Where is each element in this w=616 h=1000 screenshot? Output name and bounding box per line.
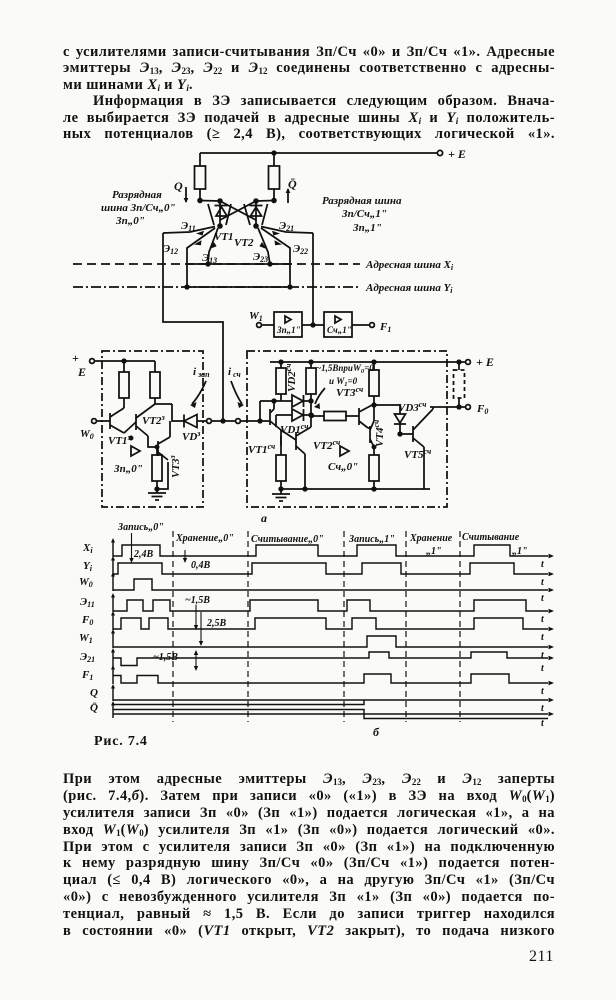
svg-text:Разрядная шина: Разрядная шина — [322, 195, 402, 207]
svg-text:Считывание: Считывание — [462, 532, 520, 543]
svg-text:Э21: Э21 — [279, 220, 294, 233]
phase separator line 2 — [247, 531, 249, 722]
ground symbol (read amp) — [272, 489, 290, 501]
resistor R2s — [306, 362, 316, 417]
svg-text:t: t — [541, 718, 545, 729]
svg-text:Зп„1": Зп„1" — [276, 325, 301, 335]
svg-text:Q: Q — [90, 687, 98, 699]
svg-text:~1,5ВприW0=0: ~1,5ВприW0=0 — [316, 363, 374, 375]
svg-text:t: t — [541, 650, 545, 661]
waveform row Xi — [82, 538, 554, 570]
wire VT1s emitter junction to resistor — [280, 436, 282, 445]
svg-text:Хранение: Хранение — [409, 533, 453, 544]
svg-text:VT3з: VT3з — [168, 455, 182, 478]
node W1 input — [249, 310, 274, 327]
resistor R-right (collector load of VT2) — [269, 153, 280, 202]
emitter E22 wire — [261, 228, 308, 287]
waveform row Qbar — [90, 701, 554, 729]
bottom paragraph — [63, 771, 555, 940]
wire collector VT2 — [256, 200, 274, 203]
svg-text:Э12: Э12 — [163, 243, 178, 256]
svg-text:~1,5В: ~1,5В — [185, 595, 210, 606]
svg-text:t: t — [541, 632, 545, 643]
svg-text:t: t — [541, 614, 545, 625]
svg-text:+: + — [72, 351, 79, 365]
svg-text:Запись„0": Запись„0" — [117, 522, 164, 533]
svg-text:VD2сч: VD2сч — [284, 364, 298, 392]
svg-text:VT5сч: VT5сч — [404, 447, 431, 461]
address line Xi (dashed) — [73, 259, 454, 272]
svg-text:W1: W1 — [249, 310, 263, 323]
svg-text:t: t — [541, 593, 545, 604]
current label i_sch with arrow — [228, 366, 244, 408]
transistor VT1s — [248, 401, 281, 456]
caption — [94, 734, 148, 750]
transistor VT3s — [359, 404, 374, 428]
ground symbol (write amp) — [148, 489, 166, 500]
svg-text:Э22: Э22 — [293, 243, 308, 256]
write amp block Zp1 — [274, 312, 302, 337]
svg-text:W0: W0 — [80, 428, 94, 441]
transistor VT2s — [296, 427, 340, 454]
svg-text:E: E — [77, 365, 86, 379]
wire VT3s collector to rail resistor — [369, 362, 379, 407]
svg-text:t: t — [541, 703, 545, 714]
svg-text:~1,5В: ~1,5В — [153, 652, 178, 663]
svg-text:F0: F0 — [81, 614, 93, 627]
transistor VT3z — [158, 437, 182, 478]
top rail of read amp — [270, 360, 465, 364]
emitter E11 wire — [163, 220, 215, 236]
wire VT1z emitter to VT2z base — [124, 422, 136, 440]
node Q-bar with arrow — [286, 177, 297, 203]
waveform row Yi — [83, 556, 554, 588]
svg-text:i зап: i зап — [193, 366, 210, 379]
svg-text:б: б — [373, 725, 380, 739]
svg-text:VT4сч: VT4сч — [372, 420, 386, 447]
svg-text:VT1сч: VT1сч — [248, 442, 275, 456]
top paragraph — [63, 44, 555, 142]
wire VT5s emitter down to rail — [423, 447, 425, 489]
transistor VT2z — [136, 404, 165, 436]
svg-text:t: t — [541, 559, 545, 570]
node F0 output — [430, 403, 488, 416]
page number — [529, 948, 554, 966]
svg-text:2,4В: 2,4В — [133, 549, 154, 560]
wire output to junction — [212, 419, 236, 423]
emitter E21 wire — [261, 220, 313, 236]
svg-text:Э23: Э23 — [253, 251, 268, 264]
horizontal resistor Rh — [311, 412, 359, 421]
waveform row W0 — [79, 572, 554, 604]
phase separator line 5 — [459, 531, 461, 722]
svg-text:Э11: Э11 — [181, 220, 196, 233]
waveform row E11 — [80, 593, 554, 625]
svg-text:Q̄: Q̄ — [90, 702, 98, 714]
node: output contact of write amp — [207, 419, 212, 424]
resistor R1z — [119, 361, 129, 408]
resistor R2z — [150, 361, 160, 404]
svg-text:Q̄: Q̄ — [288, 177, 297, 191]
bottom rail of read amp — [281, 487, 430, 491]
svg-text:Yi: Yi — [83, 560, 93, 573]
node F1 output — [352, 321, 391, 334]
wire between amps with junction — [302, 323, 324, 327]
annotation 2,4V — [129, 533, 153, 563]
phase separator line 3 — [343, 531, 345, 722]
svg-text:шина Зп/Сч„0": шина Зп/Сч„0" — [101, 202, 176, 214]
read amp block Sch1 — [324, 312, 352, 337]
svg-text:Q: Q — [174, 179, 183, 193]
svg-text:F1: F1 — [379, 321, 391, 334]
wire collector VT1 — [200, 200, 220, 203]
write amp box (dash-dot) — [102, 351, 203, 507]
transistor VT5s — [404, 409, 433, 461]
transistor VT4s — [370, 406, 386, 447]
svg-text:Разрядная: Разрядная — [112, 189, 162, 201]
annotation 2,5V — [199, 612, 227, 646]
svg-text:VT2: VT2 — [234, 237, 254, 249]
svg-text:Зп„1": Зп„1" — [352, 222, 382, 234]
node Q with arrow — [174, 179, 188, 203]
svg-text:Зп„0": Зп„0" — [115, 215, 145, 227]
waveform row Q — [90, 684, 554, 714]
+E terminal left — [72, 351, 155, 379]
svg-text:Э21: Э21 — [80, 651, 95, 664]
svg-text:2,5В: 2,5В — [206, 618, 227, 629]
diode VDz — [155, 404, 207, 443]
waveform row E21 — [80, 648, 554, 674]
svg-text:Считывание„0": Считывание„0" — [251, 534, 324, 545]
svg-text:Сч„0": Сч„0" — [328, 461, 358, 473]
svg-text:Зп„0": Зп„0" — [113, 463, 143, 475]
amplifier mark triangle Zp0 — [113, 446, 143, 475]
svg-text:Э11: Э11 — [80, 596, 95, 609]
svg-text:VT1з: VT1з — [108, 433, 131, 447]
resistor R6 (dashed, external) — [454, 362, 465, 407]
svg-text:+ E: + E — [448, 147, 466, 161]
svg-text:F1: F1 — [81, 669, 93, 682]
waveform row W1 — [79, 629, 554, 661]
waveform row F0 — [81, 611, 554, 643]
wire lower clamp — [276, 414, 292, 416]
svg-text:F0: F0 — [476, 403, 488, 416]
svg-text:VT3сч: VT3сч — [336, 385, 363, 399]
svg-text:Адресная шина Xi: Адресная шина Xi — [365, 259, 454, 272]
wire VT2z emitter node down — [148, 436, 158, 447]
+E supply terminal top — [200, 147, 466, 161]
svg-text:t: t — [541, 577, 545, 588]
resistor R5s bottom right — [369, 445, 379, 490]
wire clamp node — [260, 399, 292, 403]
svg-text:VD3сч: VD3сч — [398, 400, 426, 414]
wire bit line 0 down to write amp — [163, 233, 223, 421]
read amp box (dash-dot) — [247, 351, 447, 507]
svg-text:VT2сч: VT2сч — [313, 438, 340, 452]
svg-text:i сч: i сч — [228, 366, 241, 379]
resistor R1s — [276, 362, 286, 401]
svg-text:Зп/Сч„1": Зп/Сч„1" — [341, 208, 387, 220]
wire VT3z collector to diode node — [169, 421, 171, 437]
svg-text:t: t — [541, 663, 545, 674]
current label i_zap with arrow — [190, 366, 210, 408]
svg-text:а: а — [261, 511, 267, 525]
+E terminal right — [466, 355, 494, 369]
svg-text:Хранение„0": Хранение„0" — [175, 533, 234, 544]
wire VT2s emitter down — [304, 454, 306, 489]
transistor VT1 (multi-emitter, with base diode) — [208, 199, 234, 243]
svg-text:VT2з: VT2з — [142, 413, 165, 427]
diode VD1s — [280, 409, 311, 436]
wire bit line 1 down to W1 amps — [312, 233, 314, 325]
svg-text:Запись„1": Запись„1" — [348, 534, 395, 545]
svg-text:Адресная шина Yi: Адресная шина Yi — [365, 282, 453, 295]
svg-text:Xi: Xi — [82, 542, 93, 555]
wire VT2s collector up — [310, 416, 312, 427]
transistor VT2 (multi-emitter, with base diode) — [234, 199, 268, 249]
resistor R3z bottom — [152, 445, 168, 490]
svg-text:W1: W1 — [79, 632, 93, 645]
svg-text:+ E: + E — [476, 355, 494, 369]
wire VT5s collector to F0 line — [432, 407, 434, 409]
emitter E23 wire — [253, 228, 270, 264]
diode VD2s — [284, 364, 311, 407]
wire VT3s emitter down to VT4s — [368, 427, 370, 429]
svg-text:VDз: VDз — [182, 429, 200, 443]
svg-text:Сч„1": Сч„1" — [327, 325, 352, 335]
phase separator line 1 — [172, 531, 174, 722]
wire cross-coupling VT2 top to base VT1 — [220, 201, 256, 220]
annotation 0,4V — [183, 550, 211, 571]
wire VT1s emitter node — [276, 415, 296, 445]
phase separator line 4 — [405, 531, 407, 722]
wire cross-coupling VT1 top to base VT2 — [220, 201, 256, 220]
svg-text:VD1сч: VD1сч — [280, 422, 308, 436]
svg-text:0,4В: 0,4В — [191, 560, 211, 571]
diode VD3s — [374, 400, 426, 436]
emitter E12 wire — [163, 228, 215, 287]
annotation ~1,5V upper — [185, 595, 210, 630]
node: input contact of read amp — [236, 419, 241, 424]
emitter E13 wire — [202, 228, 218, 265]
annotation ~1,5V lower — [153, 650, 198, 671]
svg-text:t: t — [541, 686, 545, 697]
wire into read amp — [241, 419, 271, 423]
waveform row F1 — [81, 665, 554, 697]
resistor R-left (collector load of VT1) — [195, 153, 206, 202]
node W0 input — [80, 419, 110, 441]
wire input to VT1s base — [259, 401, 261, 421]
annotation 1.5V note with arrow — [314, 363, 374, 409]
transistor VT1z — [108, 408, 131, 447]
amplifier mark triangle Sch0 — [328, 446, 358, 473]
svg-text:W0: W0 — [79, 576, 93, 589]
resistor R4s bottom left — [276, 445, 286, 491]
address line Yi (dash-dot) — [73, 282, 453, 295]
